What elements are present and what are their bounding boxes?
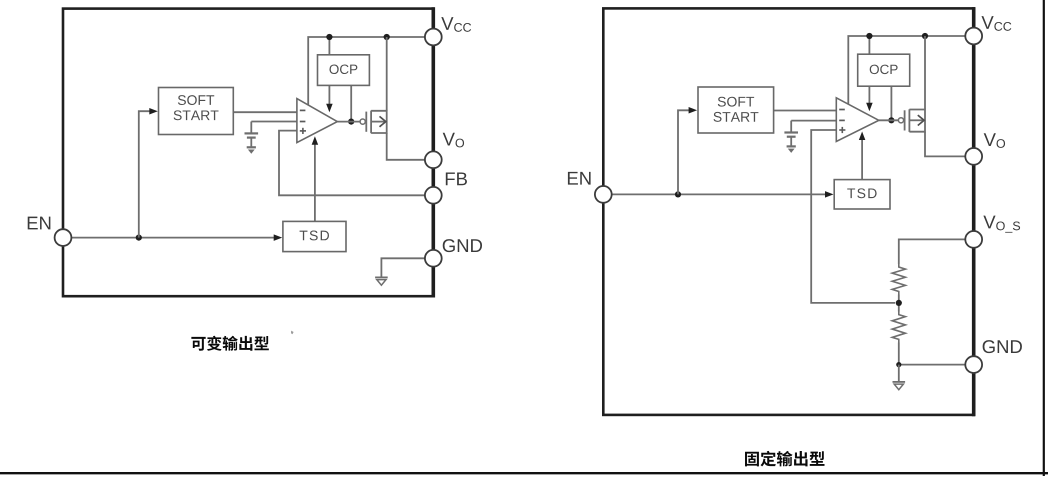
wire: OCP top to rail	[328, 37, 330, 55]
node: rail-drain junction	[384, 34, 390, 40]
pin GND right diagram	[965, 356, 982, 373]
pin GND left diagram	[425, 250, 442, 267]
wire: SOFT START to op-amp right	[774, 110, 837, 112]
wire: divider tap feedback to op-amp (+) right	[811, 130, 895, 303]
node: gate node junction right	[888, 117, 894, 123]
output PMOS transistor left	[360, 119, 365, 124]
op-amp (error amplifier) left	[297, 99, 337, 143]
caption: fixed output type	[745, 452, 759, 467]
IC outline box (left diagram)	[63, 9, 433, 297]
capacitor + ground (Vref)	[250, 122, 252, 134]
node: EN branch junction	[136, 235, 142, 241]
capacitor + ground (Vref) right	[790, 121, 792, 133]
block: OCP left	[318, 55, 370, 86]
wire: OCP right sense to gate node right	[890, 86, 892, 120]
wire: between resistors	[898, 295, 900, 312]
label EN	[28, 217, 38, 230]
page bottom border	[0, 472, 1048, 474]
wire: EN branch to SOFT START right	[678, 110, 693, 194]
node: ground branch junction	[896, 362, 901, 367]
wire: GND pin to ground	[381, 258, 424, 276]
pin FB left diagram	[425, 187, 442, 204]
wire: Vref to op-amp (-)	[251, 121, 297, 123]
wire: source to VO pin right	[925, 132, 965, 157]
block: TSD left	[283, 221, 346, 251]
label GND right	[983, 340, 995, 353]
wire: FB feedback to op-amp (+)	[279, 131, 425, 196]
page right border	[1043, 0, 1045, 476]
node: gate node junction	[348, 119, 354, 125]
wire: drain to VCC rail	[386, 37, 388, 111]
block: SOFT START U-left	[159, 88, 234, 135]
label VO_S right	[983, 216, 995, 229]
wire: op-amp output	[337, 121, 360, 123]
wire: OCP right sense down to gate node	[350, 85, 352, 121]
node: EN branch junction right	[675, 191, 681, 197]
node: rail-drain junction right	[922, 33, 928, 39]
label FB	[446, 172, 455, 185]
wire: VCC rail	[308, 37, 425, 106]
wire: source to VO pin	[387, 133, 425, 160]
resistor R2 (lower divider)	[892, 312, 905, 343]
pin VO_S right diagram	[965, 231, 982, 248]
wire: OCP left output into op-amp right, arrow	[868, 86, 870, 103]
wire: SOFT START to op-amp	[233, 111, 297, 113]
wire: TSD to op-amp, arrow	[314, 141, 316, 222]
IC outline box (right diagram)	[603, 8, 973, 415]
wire: TSD to op-amp right, arrow	[861, 136, 863, 180]
label VO	[443, 133, 455, 146]
wire: down to ground symbol	[898, 365, 900, 381]
node: rail-OCP junction	[326, 34, 332, 40]
node: rail-OCP junction right	[866, 33, 872, 39]
pin EN wire across right	[612, 193, 831, 195]
pin VO left diagram	[425, 151, 442, 168]
block: TSD right	[834, 180, 890, 209]
wire: Vref to op-amp (-) right	[791, 120, 836, 122]
pin EN wire across	[72, 237, 280, 239]
wire: OCP top to rail right	[868, 36, 870, 54]
pin VO right diagram	[965, 148, 982, 165]
pin VCC left diagram	[425, 29, 442, 46]
node: divider tap junction	[896, 300, 902, 306]
wire: OCP left output into op-amp, arrow	[328, 85, 330, 104]
pin EN left diagram	[55, 229, 72, 246]
stray tick mark	[291, 331, 294, 335]
ground symbol near GND	[375, 276, 388, 278]
wire: op-amp output right	[879, 119, 899, 121]
label GND	[443, 239, 455, 252]
block: SOFT START right	[698, 87, 774, 133]
pin VCC right diagram	[965, 28, 982, 45]
label EN right	[568, 172, 578, 185]
pin EN right diagram	[595, 186, 612, 203]
wire: drain to VCC rail right	[924, 36, 926, 110]
ground symbol below divider	[893, 381, 906, 383]
wire: EN branch up to SOFT START	[139, 111, 154, 237]
wire: VO_S pin to divider	[899, 239, 965, 264]
op-amp (error amplifier) right	[836, 98, 879, 142]
caption: variable output type	[191, 337, 205, 351]
block: OCP right	[858, 54, 910, 86]
wire: VCC rail right	[848, 36, 965, 104]
wire: R2 bottom to GND pin	[899, 343, 965, 365]
output PMOS transistor right	[898, 118, 903, 123]
resistor R1 (upper divider)	[892, 264, 905, 295]
label VCC	[441, 17, 453, 30]
label VO right	[984, 133, 996, 146]
label VCC right	[981, 16, 993, 29]
